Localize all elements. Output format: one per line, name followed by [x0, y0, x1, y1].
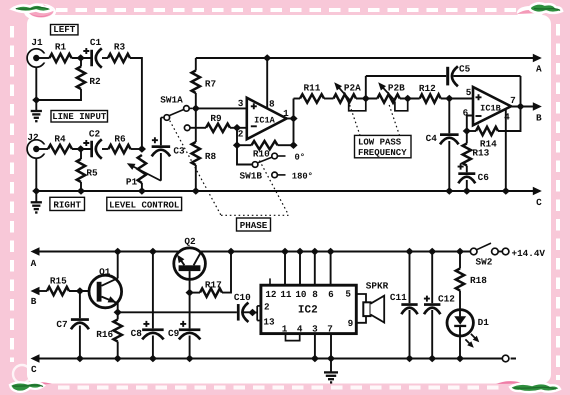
- svg-text:R11: R11: [304, 82, 321, 93]
- wire R6 out: [131, 148, 142, 150]
- node R10 left: [233, 141, 241, 149]
- node pin8 rail: [263, 54, 271, 62]
- node P2B-R12: [404, 95, 412, 103]
- potentiometer P2B: [377, 94, 400, 102]
- svg-text:C: C: [31, 364, 37, 375]
- resistor R15: [47, 287, 69, 295]
- svg-text:C8: C8: [131, 328, 143, 339]
- wire C1-R3: [102, 57, 108, 59]
- svg-text:13: 13: [263, 317, 275, 328]
- svg-text:C9: C9: [168, 328, 180, 339]
- wire R10 right lead: [278, 144, 294, 146]
- op-amp IC1B: [473, 87, 511, 125]
- ground IC2: [330, 359, 332, 373]
- resistor R4: [48, 145, 72, 153]
- svg-text:180°: 180°: [292, 171, 313, 181]
- resistor R1: [50, 54, 72, 62]
- svg-text:SPKR: SPKR: [366, 280, 389, 291]
- node R10 right: [289, 141, 297, 149]
- capacitor C7: [79, 291, 81, 318]
- svg-text:SW1B: SW1B: [239, 171, 262, 182]
- node pin6: [463, 127, 471, 135]
- svg-text:R3: R3: [114, 42, 126, 53]
- svg-text:5: 5: [466, 87, 472, 98]
- svg-text:2: 2: [238, 129, 244, 140]
- resistor R9: [206, 124, 230, 132]
- capacitor C8: [152, 252, 154, 329]
- svg-text:C12: C12: [438, 293, 455, 304]
- wire rail-R7: [195, 58, 197, 71]
- lowpass linkage dashes: [350, 105, 360, 135]
- svg-text:LEVEL CONTROL: LEVEL CONTROL: [109, 201, 179, 211]
- svg-text:4: 4: [297, 324, 303, 335]
- node R7-R8-pin3: [192, 105, 200, 113]
- resistor R14: [476, 127, 498, 135]
- wire pin8 riser: [314, 252, 316, 286]
- svg-text:LINE INPUT: LINE INPUT: [52, 112, 107, 122]
- phase linkage dashes: [170, 121, 221, 216]
- wire R1 out: [72, 57, 91, 59]
- capacitor C12: [431, 252, 433, 304]
- wire R5 top: [80, 149, 82, 159]
- svg-text:FREQUENCY: FREQUENCY: [358, 148, 407, 158]
- wire pin4 riser: [505, 109, 507, 191]
- capacitor C9: [189, 293, 191, 329]
- wire pin11 riser: [284, 252, 286, 286]
- wire pin6-R14: [467, 130, 476, 132]
- svg-text:6: 6: [328, 289, 334, 300]
- svg-text:IC1B: IC1B: [480, 104, 501, 114]
- resistor R7: [192, 71, 200, 94]
- rail A top: [196, 57, 540, 59]
- svg-text:J1: J1: [31, 37, 43, 48]
- potentiometer P2A: [334, 94, 357, 102]
- wire R11-P2A: [324, 98, 334, 100]
- capacitor C6: [466, 166, 468, 173]
- wire pin7 riser: [330, 334, 332, 359]
- wire J2 down: [35, 158, 37, 191]
- svg-text:J2: J2: [27, 132, 39, 143]
- svg-text:R13: R13: [472, 148, 489, 159]
- svg-text:RIGHT: RIGHT: [53, 200, 81, 211]
- wire R5 bottom: [80, 182, 82, 191]
- wire R9-pin2: [230, 127, 247, 129]
- capacitor C10: [237, 304, 240, 321]
- wire IC1A output: [287, 118, 294, 120]
- node mixer: [138, 145, 146, 153]
- node C8 bus: [149, 355, 157, 363]
- wire out riser: [293, 99, 295, 119]
- resistor R3: [108, 54, 130, 62]
- wire R13 top: [466, 131, 468, 144]
- box label LINE INPUT: [51, 111, 108, 123]
- node Q1 emitter: [114, 309, 122, 317]
- node pin6 rail: [327, 248, 335, 256]
- capacitor C4: [448, 99, 450, 134]
- node C9 bus: [186, 355, 194, 363]
- node IC1A out: [289, 115, 297, 123]
- resistor R10: [252, 141, 278, 149]
- svg-text:C: C: [536, 197, 542, 208]
- bus lower: [38, 358, 502, 360]
- wire feedback riser: [293, 119, 295, 146]
- node R4-C2-R5: [77, 145, 85, 153]
- wire Q1 collector riser: [117, 252, 119, 279]
- resistor R18: [459, 252, 461, 269]
- svg-text:LOW PASS: LOW PASS: [358, 138, 402, 148]
- potentiometer P1: [138, 155, 146, 183]
- strap pins 1-4: [286, 334, 300, 341]
- svg-text:R6: R6: [114, 134, 126, 145]
- wire P2B-R12: [400, 98, 420, 100]
- box label LOW PASS FREQUENCY: [355, 135, 412, 157]
- node pin5: [445, 95, 453, 103]
- svg-text:8: 8: [269, 99, 275, 110]
- wire R16-bus: [117, 342, 119, 359]
- svg-text:R12: R12: [419, 83, 436, 94]
- ground left input: [35, 100, 37, 111]
- svg-text:2: 2: [264, 302, 270, 313]
- capacitor C2: [90, 141, 93, 158]
- svg-text:R18: R18: [470, 275, 487, 286]
- op-amp IC1A: [247, 98, 287, 139]
- svg-text:A: A: [31, 258, 37, 269]
- node pin7 bus: [327, 355, 335, 363]
- wire R4 out: [72, 148, 91, 150]
- wire R7-node: [195, 93, 197, 142]
- transistor Q1: [89, 275, 122, 308]
- svg-text:P1: P1: [126, 177, 138, 188]
- wire pin6 riser: [330, 252, 332, 286]
- node Q2-R17-C9: [186, 289, 194, 297]
- wire pin2 down: [236, 128, 238, 145]
- svg-text:+14.4V: +14.4V: [512, 248, 546, 259]
- svg-text:C10: C10: [234, 292, 251, 303]
- wire R17 riser: [222, 252, 231, 293]
- wire R12-pin5: [441, 98, 474, 100]
- svg-text:1: 1: [282, 324, 288, 335]
- node pin8 rail: [311, 248, 319, 256]
- box label PHASE: [237, 218, 271, 231]
- svg-text:C6: C6: [478, 172, 490, 183]
- wire emitter line to C10: [118, 311, 237, 313]
- resistor R11: [300, 94, 324, 102]
- svg-text:R9: R9: [210, 113, 222, 124]
- svg-text:C11: C11: [390, 292, 407, 303]
- LED D1: [447, 310, 473, 336]
- svg-text:LEFT: LEFT: [53, 24, 76, 35]
- svg-text:0°: 0°: [295, 152, 306, 162]
- svg-text:IC2: IC2: [298, 304, 318, 316]
- resistor R13: [463, 144, 471, 166]
- wire Q1 emitter down: [117, 303, 119, 313]
- wire SW1A throw2 to R9: [190, 127, 206, 129]
- box label LEVEL CONTROL: [107, 197, 182, 210]
- svg-text:C7: C7: [56, 319, 67, 330]
- wire Q2 base down: [189, 271, 191, 293]
- svg-text:6: 6: [463, 107, 469, 118]
- svg-text:R10: R10: [253, 149, 270, 160]
- resistor R17: [200, 288, 222, 296]
- jack J1: [27, 49, 45, 67]
- node pin11 rail: [281, 248, 289, 256]
- node pin4 bus: [502, 187, 510, 195]
- wire J1-R1: [39, 57, 50, 59]
- capacitor C3: [160, 118, 162, 146]
- terminal minus: [502, 355, 509, 362]
- wire R15-base: [69, 290, 97, 292]
- bus upper: [36, 190, 540, 192]
- svg-text:R1: R1: [55, 42, 67, 53]
- wire IC1B output: [511, 106, 540, 108]
- wire C2-R6: [102, 148, 109, 150]
- node R16 bus: [114, 355, 122, 363]
- switch SW2: [477, 243, 491, 250]
- switch SW1B: [237, 145, 252, 164]
- wire J1 down: [35, 67, 37, 100]
- resistor R2: [77, 67, 85, 90]
- rail A lower: [38, 251, 470, 253]
- svg-text:D1: D1: [478, 317, 490, 328]
- wire B input: [38, 290, 47, 292]
- node pin2: [233, 124, 241, 132]
- svg-text:C3: C3: [173, 146, 185, 157]
- svg-text:9: 9: [348, 318, 354, 329]
- svg-text:R7: R7: [205, 78, 216, 89]
- svg-text:SW2: SW2: [476, 257, 493, 268]
- svg-text:C2: C2: [89, 128, 101, 139]
- wire R2 bottom to J1 ground: [36, 89, 81, 100]
- resistor R6: [109, 145, 131, 153]
- wire pin10 riser: [299, 252, 301, 286]
- svg-text:Q2: Q2: [184, 236, 196, 247]
- wire P2A-P2B: [356, 98, 377, 100]
- resistor R5: [77, 159, 85, 182]
- svg-text:R15: R15: [50, 275, 67, 286]
- svg-text:7: 7: [327, 324, 333, 335]
- node P1 bus: [138, 187, 146, 195]
- capacitor C11: [409, 252, 411, 304]
- svg-text:10: 10: [295, 289, 307, 300]
- node pin10 rail: [296, 248, 304, 256]
- svg-text:C1: C1: [90, 37, 102, 48]
- node Q1 collector rail: [114, 248, 122, 256]
- node J2 bus: [32, 187, 40, 195]
- svg-text:R8: R8: [205, 151, 217, 162]
- wire R8-bus: [195, 165, 197, 191]
- node R17 rail: [227, 248, 235, 256]
- node C8 rail: [149, 248, 157, 256]
- svg-text:3: 3: [238, 98, 244, 109]
- node base-C7: [76, 287, 84, 295]
- jack J2: [27, 140, 45, 158]
- wire midline a: [294, 98, 301, 100]
- svg-text:12: 12: [265, 289, 277, 300]
- svg-text:Q1: Q1: [99, 266, 111, 277]
- node C6 bus: [463, 187, 471, 195]
- resistor R12: [420, 94, 441, 102]
- node C7 bus: [76, 355, 84, 363]
- node R1-C1-R2: [77, 54, 85, 62]
- wire pin6 stub: [467, 116, 473, 132]
- svg-text:7: 7: [510, 95, 516, 106]
- wire emitter-R16: [117, 312, 119, 319]
- node IC1B out: [516, 103, 524, 111]
- wire R14-out riser: [498, 107, 521, 132]
- svg-text:C4: C4: [426, 133, 438, 144]
- svg-text:R17: R17: [205, 280, 222, 291]
- wire R2 top: [80, 58, 82, 67]
- wire C10 to IC2 pins: [253, 312, 258, 314]
- node C11 bus: [405, 355, 413, 363]
- svg-text:R2: R2: [89, 76, 101, 87]
- svg-text:B: B: [536, 113, 542, 124]
- svg-text:R5: R5: [86, 168, 98, 179]
- wire Q2-R17: [190, 292, 200, 294]
- node P2A-P2B-C5: [362, 95, 370, 103]
- svg-text:3: 3: [312, 324, 318, 335]
- node C4 bus: [445, 187, 453, 195]
- resistor R8: [192, 142, 200, 165]
- svg-text:IC1A: IC1A: [254, 116, 275, 126]
- node C12 bus: [428, 355, 436, 363]
- ground right input: [35, 191, 37, 202]
- svg-text:8: 8: [312, 289, 318, 300]
- wire pin8 riser: [266, 58, 268, 109]
- svg-text:P2A: P2A: [344, 82, 361, 93]
- wire R10 left lead: [237, 144, 252, 146]
- box label RIGHT: [50, 197, 85, 210]
- svg-text:11: 11: [280, 289, 292, 300]
- speaker SPKR: [356, 294, 366, 302]
- node C10 out: [248, 309, 256, 317]
- transistor Q2: [174, 248, 206, 280]
- wire pin3 input: [196, 107, 247, 109]
- svg-text:SW1A: SW1A: [160, 94, 183, 105]
- node D1 bus: [456, 355, 464, 363]
- node R8 bus: [192, 187, 200, 195]
- capacitor C1: [90, 50, 93, 67]
- node R18 rail: [456, 248, 464, 256]
- pin12 stub: [269, 278, 271, 285]
- wire pin3 riser: [314, 334, 316, 359]
- svg-text:PHASE: PHASE: [240, 220, 268, 231]
- resistor R16: [114, 320, 122, 342]
- node C11 rail: [405, 248, 413, 256]
- node C12 rail: [428, 248, 436, 256]
- svg-text:R16: R16: [96, 329, 113, 340]
- box label LEFT: [51, 25, 79, 35]
- svg-text:A: A: [536, 63, 542, 74]
- capacitor C5: [365, 76, 367, 99]
- svg-text:1: 1: [283, 108, 289, 119]
- node R5 bus: [77, 187, 85, 195]
- svg-text:C5: C5: [459, 64, 471, 75]
- wire J2-R4: [39, 148, 48, 150]
- svg-text:5: 5: [345, 288, 351, 299]
- svg-text:R4: R4: [54, 134, 66, 145]
- svg-text:B: B: [31, 296, 37, 307]
- node J1 ground: [32, 96, 40, 104]
- wire R3 to mix node: [130, 58, 142, 149]
- node pin3 bus: [311, 355, 319, 363]
- IC IC2: [261, 285, 356, 333]
- svg-text:P2B: P2B: [388, 82, 405, 93]
